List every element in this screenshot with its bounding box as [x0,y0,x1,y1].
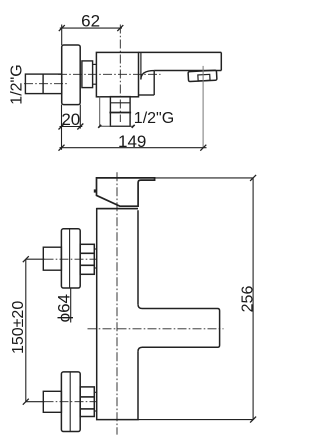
spout top line [139,51,222,53]
body top line [97,208,138,210]
svg-text:20: 20 [61,110,80,129]
tick 149 left [59,145,65,151]
body top view [96,52,138,96]
body vertical centerline [116,172,118,434]
upper disc inner line [69,229,71,288]
tick 256 bottom [250,417,256,423]
tick 149 right [200,145,206,151]
svg-text:150±20: 150±20 [10,301,27,354]
upper nut step bottom [94,267,97,269]
inlet pipe nut divider [42,74,44,94]
cartridge centerline vertical [119,25,121,123]
upper union disc [61,229,80,288]
spout base vertical [153,71,155,95]
tick 62 right [117,25,123,31]
fitting facet line 2 (thick) [109,112,131,114]
fitting end tick left [98,125,101,128]
spout end [220,52,222,70]
dim 20 extension left / 149 left extension [61,105,63,150]
dim 149 line [60,147,207,149]
upper union pipe [43,247,61,270]
body centerline horizontal [58,73,161,75]
fitting end line [100,125,134,127]
wall flange top view [62,45,80,105]
bottom fitting 1/2"G [110,97,130,127]
svg-text:149: 149 [118,132,146,151]
lower union centerline [26,401,45,403]
fitting end tick right [132,125,135,128]
lower nut facet 1 [80,396,94,398]
spout underside line [154,70,221,72]
tick 150 top [23,256,29,262]
upper union centerline [26,258,45,260]
lower nut step bottom [94,410,97,412]
fitting facet line 1 [110,102,130,104]
svg-text:256: 256 [240,286,257,313]
tick 20 right [77,124,83,130]
lower union pipe [43,391,61,412]
dim 256 bottom extension [138,419,253,421]
lever pivot tick [94,189,97,192]
tick 256 top [250,175,256,181]
dim 256 line [252,178,254,420]
tick 20 left [59,124,65,130]
upper nut step top [94,248,97,250]
washer line bottom [93,83,97,85]
lower nut step top [94,391,97,393]
lower disc inner line [69,372,71,432]
spout protrusion front view [138,304,220,351]
handle lever outline [97,178,155,206]
svg-text:1/2"G: 1/2"G [134,110,174,127]
connector between flange and body [82,61,93,88]
inlet pipe top view [25,74,61,94]
phi64 leader line [70,288,72,323]
svg-text:ϕ64: ϕ64 [54,294,73,322]
lower union nut [80,387,94,417]
lower union disc [61,372,80,432]
upper nut facet 2 [80,264,94,266]
washer line top [93,63,97,65]
dimension 62 line [60,27,122,29]
fitting side line [99,96,101,126]
spout base bottom [139,94,155,96]
tick 62 left [59,25,65,31]
spout fillet curve [141,71,154,80]
dim 20 extension right [79,105,81,129]
aerator [188,70,217,81]
dim 150±20 line [25,259,27,402]
body outline [97,209,138,420]
svg-text:62: 62 [81,11,100,30]
aerator axis / 149 extension line [202,66,204,148]
protrusion horizontal centerline [88,328,224,330]
svg-text:1/2"G: 1/2"G [9,64,26,104]
dim 256 top extension [155,177,254,179]
upper union nut [80,244,94,274]
extension line left of 62 [61,25,63,46]
dim 20 line [60,126,83,128]
lower nut facet 2 [80,408,94,410]
upper nut facet 1 [80,252,94,254]
tick 150 bottom [23,399,29,405]
spout joint line [140,52,142,79]
inlet pipe centerline [24,83,67,85]
